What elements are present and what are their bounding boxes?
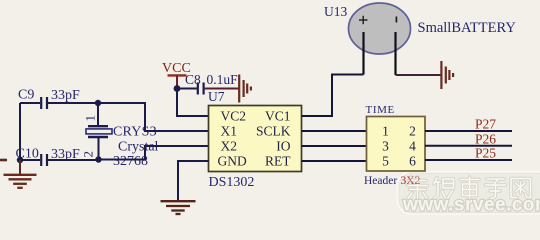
node junction dot C10/ground <box>17 157 23 163</box>
wire C10 left <box>20 159 40 161</box>
ground GND1 bottom-left <box>4 160 37 188</box>
svg-text:SmallBATTERY: SmallBATTERY <box>418 20 517 36</box>
crop artifact left edge <box>0 159 7 162</box>
svg-text:IO: IO <box>276 139 290 154</box>
svg-text:32768: 32768 <box>113 154 148 169</box>
svg-text:P27: P27 <box>475 117 496 132</box>
svg-text:X1: X1 <box>221 124 238 139</box>
wire battery minus to ground <box>396 74 442 76</box>
battery minus mark <box>395 17 397 23</box>
op-amp U1: DS1302 IC body <box>209 106 302 172</box>
node A crystal top junction <box>95 100 101 106</box>
wire VCC to VC2 pin <box>177 89 209 117</box>
svg-text:3: 3 <box>382 139 389 154</box>
wire port P25 <box>425 159 512 161</box>
wire SCLK to header pin1 <box>302 130 367 132</box>
watermark embossed CJK glyph shapes <box>408 177 531 199</box>
watermark box bottom-right <box>398 172 540 214</box>
svg-text:SCLK: SCLK <box>256 124 291 139</box>
ground GND4 below DS1302 <box>161 201 196 214</box>
wire crystal pin1 stub <box>97 103 99 126</box>
svg-text:3X2: 3X2 <box>401 175 421 187</box>
wire port P27 <box>425 130 512 132</box>
wire GND pin to ground <box>178 161 209 201</box>
crystal CRYS3 symbol <box>86 126 112 137</box>
wire C9 left <box>20 102 40 104</box>
svg-text:www.srvee.com: www.srvee.com <box>402 195 540 216</box>
svg-text:DS1302: DS1302 <box>209 175 255 190</box>
svg-text:VC2: VC2 <box>221 109 247 124</box>
svg-text:1: 1 <box>382 124 389 139</box>
battery U13 body <box>349 3 411 54</box>
svg-text:Header: Header <box>364 175 397 187</box>
svg-text:2: 2 <box>409 124 416 139</box>
wire C10 right to crystal bottom node <box>48 159 99 161</box>
ground GND2 (rotated) near C8 <box>239 75 251 103</box>
svg-text:4: 4 <box>409 139 416 154</box>
wire VC1 to battery plus <box>302 75 364 117</box>
node B crystal bottom junction <box>95 156 101 162</box>
wire VCC to C8 <box>177 88 197 90</box>
svg-text:U7: U7 <box>208 89 225 104</box>
svg-text:P25: P25 <box>475 146 496 161</box>
svg-text:5: 5 <box>382 154 389 169</box>
svg-text:RET: RET <box>265 154 291 169</box>
svg-text:VC1: VC1 <box>265 109 291 124</box>
svg-text:C9: C9 <box>18 88 34 103</box>
wire IO to header pin3 <box>302 145 367 147</box>
wire RET to header pin5 <box>302 160 367 162</box>
svg-text:33pF: 33pF <box>51 88 80 103</box>
capacitor C8 plates <box>198 83 204 95</box>
svg-text:GND: GND <box>218 154 247 169</box>
svg-text:U13: U13 <box>324 4 347 19</box>
wire left rail <box>19 103 21 160</box>
wire port P26 <box>425 145 512 147</box>
svg-text:0.1uF: 0.1uF <box>207 72 239 87</box>
capacitor C10 plates <box>41 154 47 166</box>
wire C9 right to crystal top node <box>48 102 98 104</box>
svg-text:6: 6 <box>409 154 416 169</box>
connector J1 header body <box>367 117 426 172</box>
wire C8 to ground <box>205 88 240 90</box>
capacitor C9 plates <box>41 97 47 109</box>
power VCC symbol <box>162 61 191 89</box>
svg-text:X2: X2 <box>221 139 238 154</box>
battery plus mark <box>359 16 368 24</box>
wire crystal top to X1 <box>98 103 209 131</box>
wire crystal pin2 stub <box>98 137 100 159</box>
ground GND3 (rotated) near battery <box>441 61 453 89</box>
svg-text:P26: P26 <box>475 131 496 146</box>
svg-text:1: 1 <box>83 115 98 122</box>
node VCC junction dot <box>174 85 181 92</box>
svg-text:TIME: TIME <box>366 104 395 116</box>
wire battery minus lead <box>394 32 396 75</box>
wire battery plus lead <box>362 32 364 75</box>
svg-text:2: 2 <box>81 151 96 158</box>
wire crystal bottom to X2 <box>99 146 210 160</box>
